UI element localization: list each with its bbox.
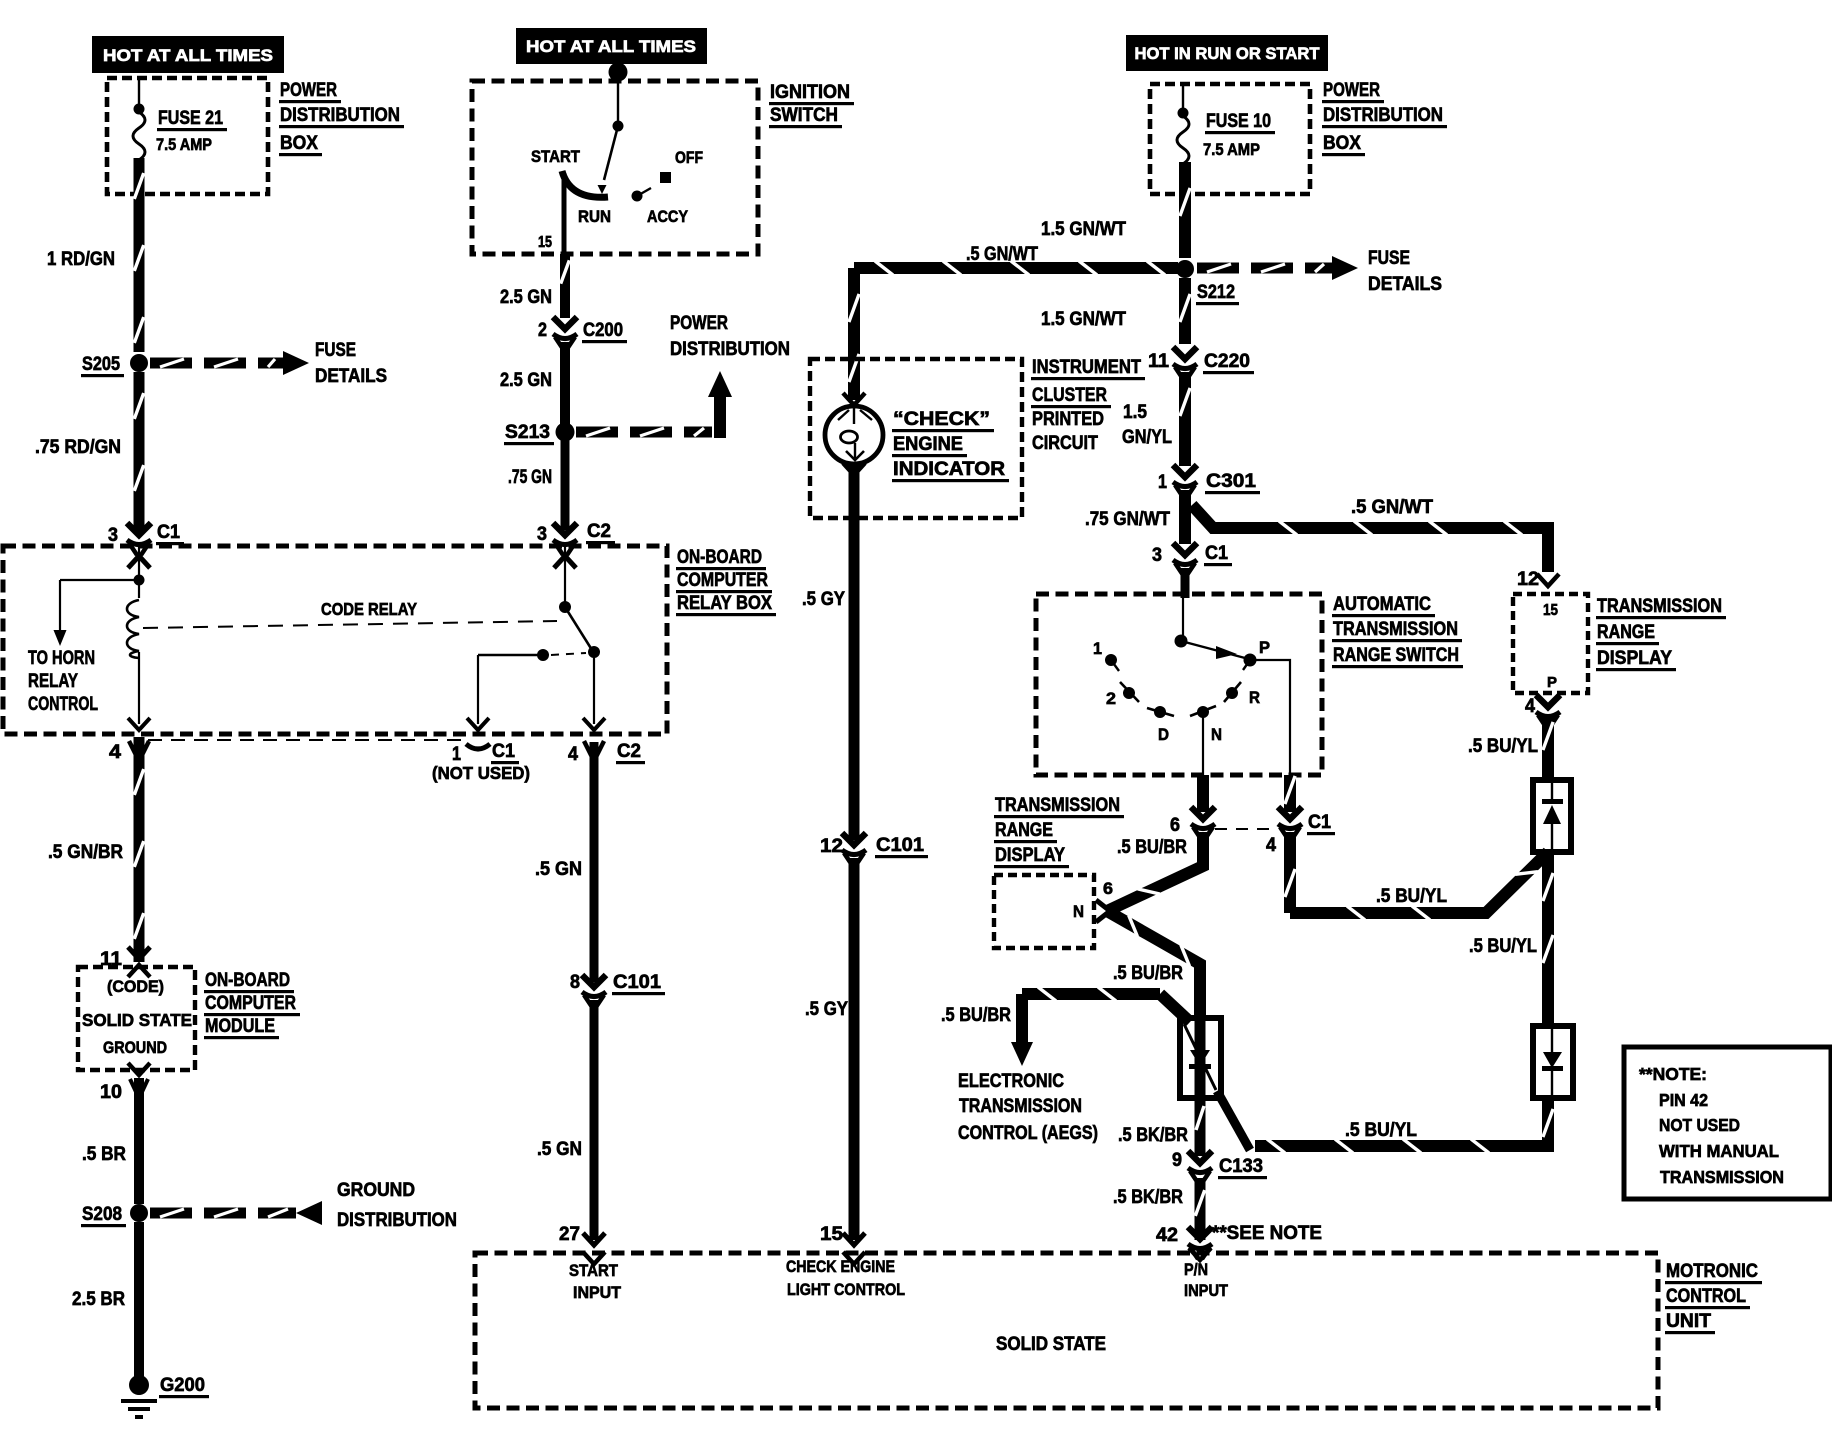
node [588,646,600,658]
svg-text:CLUSTER: CLUSTER [1032,385,1107,406]
connector C1 pin 3 [108,522,184,555]
transmission range display box [994,875,1094,948]
svg-text:S212: S212 [1197,282,1235,303]
wire 2.5 GN [560,342,570,424]
fuse F21 7.5A [133,107,227,160]
svg-text:2.5 BR: 2.5 BR [72,1289,125,1310]
label .5 GN/WT [1351,497,1433,518]
svg-text:C220: C220 [1204,351,1250,372]
relay coil K1 [127,600,139,658]
svg-text:G200: G200 [160,1375,205,1396]
wire [1250,660,1290,775]
fuse details arrow [150,351,309,375]
check engine lamp [825,406,883,464]
svg-text:4: 4 [109,742,121,763]
svg-text:SWITCH: SWITCH [770,105,838,126]
svg-text:**SEE NOTE: **SEE NOTE [1212,1223,1322,1244]
svg-text:.75 GN: .75 GN [508,467,552,488]
svg-text:N: N [1211,725,1222,744]
label .5 BK/BR [1113,1187,1183,1208]
wire .5 GY [849,462,860,840]
label code solid state ground [82,978,192,1057]
wire thin diagonal through diode D1 [1184,1024,1216,1090]
splice S208 [81,1204,148,1227]
svg-text:SOLID STATE: SOLID STATE [996,1334,1106,1355]
svg-text:.5 BU/YL: .5 BU/YL [1469,936,1537,957]
svg-text:CIRCUIT: CIRCUIT [1032,433,1098,454]
fuse details arrow [1197,256,1358,280]
svg-text:.5 GY: .5 GY [805,999,848,1020]
AEGS arrow [1011,994,1033,1066]
svg-text:15: 15 [1543,602,1558,619]
svg-text:BOX: BOX [280,133,318,154]
label .5 BU/BR [941,1005,1011,1026]
wire .5 GN/WT horizontal [854,261,1178,275]
label .5 GN [535,859,582,880]
relay actuation dashed link [143,621,557,628]
svg-text:CONTROL (AEGS): CONTROL (AEGS) [958,1123,1098,1144]
svg-text:INDICATOR: INDICATOR [893,459,1005,480]
wire [1197,775,1209,812]
label 2.5 GN [500,287,552,308]
on-board computer module box [78,967,195,1070]
label relay box [676,547,776,616]
svg-text:POWER: POWER [1323,80,1380,101]
svg-text:(CODE): (CODE) [107,978,164,996]
node [1178,108,1189,119]
wire .75 RD/GN [134,372,143,532]
svg-text:START: START [531,147,581,166]
svg-text:S213: S213 [505,422,550,443]
power distribution arrow [576,371,732,438]
label .5 GN/BR [48,842,123,863]
pin 4 [1525,695,1560,727]
svg-text:“CHECK”: “CHECK” [893,409,990,430]
ignition switch box [472,81,758,254]
svg-text:8: 8 [570,972,580,993]
power distribution box label (hot in run or start) [1126,35,1328,71]
label start [531,147,581,166]
wire [583,652,605,730]
ignition blade [598,126,619,194]
label ignition switch [769,82,854,128]
svg-text:15: 15 [538,234,552,251]
svg-text:C1: C1 [492,741,515,762]
wire to display N [1096,832,1203,922]
ignition contact arc [562,171,608,197]
transmission range display box right [1513,594,1588,693]
wire flare [584,741,604,757]
svg-text:C200: C200 [583,320,623,341]
label on-board computer module [204,970,300,1039]
svg-text:1: 1 [1158,472,1167,493]
svg-text:.5 GN: .5 GN [537,1139,582,1160]
wire [467,655,489,730]
svg-text:15: 15 [820,1224,843,1245]
svg-text:6: 6 [1170,815,1180,836]
relay switch blade [565,607,592,650]
connector C133 pin 9 [1172,1150,1267,1183]
svg-text:C2: C2 [617,741,641,762]
svg-text:3: 3 [537,524,547,545]
label check engine indicator [892,409,1009,482]
svg-text:DETAILS: DETAILS [1368,274,1442,295]
ground G200 [121,1375,209,1417]
svg-text:.5 BK/BR: .5 BK/BR [1113,1187,1183,1208]
label solid state [996,1334,1106,1355]
svg-text:1 RD/GN: 1 RD/GN [47,249,115,270]
contact R [1224,682,1260,707]
lamp arrow [843,393,865,405]
svg-text:TO HORN: TO HORN [28,648,95,669]
pin 4 C2 label [568,741,645,765]
pin 11 [100,947,150,977]
svg-text:TRANSMISSION: TRANSMISSION [959,1096,1082,1117]
svg-text:.5 BU/YL: .5 BU/YL [1468,736,1538,757]
lamp arrow [843,463,865,475]
contact N [1190,706,1222,744]
label power distribution box [279,80,404,156]
svg-text:INSTRUMENT: INSTRUMENT [1032,357,1141,378]
diode D2 [1533,780,1571,852]
label 1 RD/GN [47,249,115,270]
fuse F10 7.5A [1177,110,1275,164]
svg-text:2: 2 [538,320,547,341]
node [559,601,571,613]
label .5 BR [82,1144,126,1165]
label instrument cluster printed circuit [1031,357,1145,454]
wire [478,649,586,661]
pin arrow 27 [583,1252,605,1264]
label .5 BU/BR [1113,963,1183,984]
svg-text:2: 2 [1106,689,1116,708]
label .75 GN [508,467,552,488]
svg-text:FUSE 10: FUSE 10 [1206,110,1271,132]
svg-text:DISTRIBUTION: DISTRIBUTION [337,1210,457,1231]
connector C1 pin 4 [1266,807,1335,856]
wire [562,173,567,254]
label 1.5 GN/YL [1122,402,1172,448]
svg-text:P: P [1259,638,1270,657]
svg-text:.5 BU/YL: .5 BU/YL [1345,1120,1417,1141]
svg-text:C1: C1 [1205,543,1228,564]
svg-text:.75 GN/WT: .75 GN/WT [1085,509,1170,530]
svg-text:7.5 AMP: 7.5 AMP [1203,140,1260,159]
svg-text:RELAY: RELAY [28,671,78,692]
label 2.5 GN [500,370,552,391]
contact 2 [1106,682,1139,708]
svg-text:P/N: P/N [1184,1260,1208,1279]
svg-text:CONTROL: CONTROL [1666,1286,1746,1307]
label ground distribution [337,1180,457,1231]
svg-text:12: 12 [820,836,843,857]
svg-text:GN/YL: GN/YL [1122,427,1172,448]
svg-text:ENGINE: ENGINE [893,434,963,455]
node [609,63,628,82]
wire .5 BR [134,1078,144,1204]
wire [1181,568,1190,598]
automatic transmission range switch box [1036,594,1322,775]
wire [1285,775,1295,812]
svg-text:1: 1 [1093,639,1102,658]
svg-text:HOT IN RUN OR START: HOT IN RUN OR START [1135,45,1320,63]
contact D [1147,706,1174,744]
svg-text:CODE RELAY: CODE RELAY [321,599,417,619]
pin arrow 42 [1189,1248,1211,1260]
svg-text:TRANSMISSION: TRANSMISSION [1333,619,1458,640]
svg-text:(NOT USED): (NOT USED) [432,763,530,783]
svg-text:1: 1 [452,744,461,765]
svg-text:DISTRIBUTION: DISTRIBUTION [1323,105,1443,126]
label .5 GN [537,1139,582,1160]
svg-text:1.5 GN/WT: 1.5 GN/WT [1041,309,1126,330]
wire [1202,713,1204,775]
splice S205 [81,354,148,377]
svg-text:ACCY: ACCY [647,207,689,226]
svg-text:.5 GN: .5 GN [535,859,582,880]
svg-text:INPUT: INPUT [573,1283,622,1302]
svg-text:.5 GN/WT: .5 GN/WT [966,244,1038,265]
wire .5 GN/WT branch [1192,505,1548,572]
wire diagonal out of diode D1 [1217,1091,1250,1150]
connector C101 pin 12 [820,833,928,865]
label .5 GY [802,589,845,610]
svg-text:1.5 GN/WT: 1.5 GN/WT [1041,219,1126,240]
note box [1624,1047,1831,1199]
svg-text:12: 12 [1517,569,1539,590]
svg-text:N: N [1073,902,1084,921]
label .5 BU/YL [1468,736,1538,757]
label 1.5 GN/WT [1041,219,1126,240]
svg-text:PIN 42: PIN 42 [1659,1090,1708,1110]
range switch blade [1181,641,1245,659]
svg-text:LIGHT CONTROL: LIGHT CONTROL [787,1280,905,1299]
wire .5 GN [590,742,599,982]
diode D1 [1180,1018,1221,1098]
svg-text:9: 9 [1172,1150,1182,1171]
off contact [660,172,671,183]
connector C220 pin 11 [1148,347,1254,379]
power distribution box (fuse 21) [107,78,268,194]
label .5 BU/YL [1345,1120,1417,1141]
label check engine light control [786,1257,905,1299]
svg-text:.5 GN/BR: .5 GN/BR [48,842,123,863]
connector C200 pin 2 [538,317,627,349]
svg-text:D: D [1158,725,1169,744]
wire .5 BU/YL [1543,852,1553,1026]
node [613,121,624,132]
wire [554,546,576,607]
wire flare [130,1079,148,1094]
wire .5 GN [590,1000,599,1240]
wire [1182,598,1184,641]
splice S212 [1176,260,1239,305]
ground distribution arrow [150,1201,322,1225]
wire [138,546,140,598]
svg-text:S205: S205 [82,354,120,375]
wire 1.5 GN/WT [1180,162,1190,258]
svg-text:TRANSMISSION: TRANSMISSION [1660,1167,1784,1187]
svg-text:CONTROL: CONTROL [28,694,98,715]
svg-text:IGNITION: IGNITION [770,82,850,103]
label run [578,207,611,226]
svg-text:POWER: POWER [670,313,728,334]
node [134,104,145,115]
wire .5 BU/YL [1543,716,1553,780]
svg-text:BOX: BOX [1323,133,1361,154]
node [1175,635,1188,648]
svg-text:COMPUTER: COMPUTER [205,993,296,1014]
svg-text:RUN: RUN [578,207,611,226]
svg-text:RANGE SWITCH: RANGE SWITCH [1333,645,1459,666]
label electronic transmission control [958,1071,1098,1144]
pin 3 arrow [128,556,150,568]
svg-text:DISPLAY: DISPLAY [995,845,1065,866]
svg-text:WITH MANUAL: WITH MANUAL [1659,1141,1779,1161]
svg-text:C1: C1 [157,522,180,543]
connector C2 pin 3 [537,521,615,555]
wire 1.5 GN/YL [1180,372,1190,466]
svg-text:42: 42 [1156,1225,1178,1246]
svg-text:.5 GY: .5 GY [802,589,845,610]
svg-text:.5 BK/BR: .5 BK/BR [1118,1125,1188,1146]
label power distribution box [1322,80,1447,156]
svg-text:DISTRIBUTION: DISTRIBUTION [280,105,400,126]
svg-text:MOTRONIC: MOTRONIC [1666,1261,1758,1282]
node [134,575,145,586]
connector C1 pin 1 (not used) [432,741,530,783]
power distribution box label (hot at all times) [92,36,284,73]
svg-text:1.5: 1.5 [1123,402,1147,423]
svg-text:UNIT: UNIT [1666,1311,1711,1332]
wire flare [129,741,149,757]
label transmission range display [1596,596,1726,671]
label automatic transmission range switch [1332,594,1463,668]
svg-text:11: 11 [1148,351,1169,372]
label to horn relay control [28,648,98,715]
svg-text:CHECK ENGINE: CHECK ENGINE [786,1257,895,1276]
wire 1 RD/GN [134,158,143,352]
label 2.5 BR [72,1289,125,1310]
svg-text:RANGE: RANGE [1597,622,1655,643]
svg-text:6: 6 [1103,879,1113,898]
contact 1 [1093,639,1119,671]
svg-text:COMPUTER: COMPUTER [677,570,768,591]
wire .75 GN/WT [1179,490,1191,544]
label .5 GY [805,999,848,1020]
connector C1 pin 3 [1152,543,1232,575]
check engine indicator box [810,359,1022,518]
wire .5 BK/BR [1195,1178,1204,1240]
connector C301 pin 1 [1158,465,1260,497]
svg-text:HOT AT ALL TIMES: HOT AT ALL TIMES [103,47,273,65]
svg-text:10: 10 [100,1082,122,1103]
diode D3 [1533,1026,1573,1098]
svg-text:FUSE: FUSE [315,340,356,361]
label .5 BK/BR [1118,1125,1188,1146]
pin 12 [1517,569,1559,590]
svg-text:.5 BU/BR: .5 BU/BR [941,1005,1011,1026]
svg-text:C101: C101 [613,972,661,993]
pin 4 label [109,742,121,763]
svg-text:GROUND: GROUND [103,1039,167,1057]
svg-text:.5 BR: .5 BR [82,1144,126,1165]
svg-text:4: 4 [1525,696,1535,717]
label .5 BU/YL [1469,936,1537,957]
wire .5 GY [849,858,860,1240]
svg-text:AUTOMATIC: AUTOMATIC [1333,594,1431,615]
label start input [569,1261,622,1302]
svg-text:DETAILS: DETAILS [315,366,387,387]
connector C1 dashed boundary [148,739,468,741]
svg-text:ON-BOARD: ON-BOARD [205,970,290,991]
svg-text:**NOTE:: **NOTE: [1639,1064,1707,1084]
wire .5 BU/BR to AEGS [1022,987,1160,1001]
pin 15 [820,1224,865,1245]
svg-text:.75 RD/GN: .75 RD/GN [35,437,121,458]
svg-text:NOT USED: NOT USED [1659,1115,1740,1135]
svg-text:DISTRIBUTION: DISTRIBUTION [670,339,790,360]
svg-text:RELAY BOX: RELAY BOX [677,593,772,614]
svg-text:SOLID STATE: SOLID STATE [82,1010,192,1030]
accy contact [632,188,652,202]
svg-text:FUSE 21: FUSE 21 [158,107,223,129]
pin arrow 15 [843,1252,865,1264]
wire to horn relay [54,580,140,646]
svg-text:R: R [1249,688,1260,707]
label fuse details [315,340,387,387]
svg-text:P: P [1547,674,1557,691]
label p/n input [1184,1260,1229,1300]
label .5 BU/YL [1376,886,1447,907]
label transmission range display [994,795,1124,868]
label motronic control unit [1665,1261,1762,1334]
svg-text:RANGE: RANGE [995,820,1053,841]
contact P [1243,638,1270,670]
wire [128,652,150,730]
connector C101 pin 8 [570,972,665,1007]
label .5 BU/BR [1117,837,1187,858]
wire 2.5 BR [134,1222,144,1378]
svg-text:DISPLAY: DISPLAY [1597,648,1672,669]
svg-text:3: 3 [108,525,118,546]
svg-text:7.5 AMP: 7.5 AMP [156,135,212,154]
svg-text:START: START [569,1261,619,1280]
connector pin 6 [1170,807,1215,839]
motronic control unit box [475,1253,1658,1408]
label pin 15 [538,234,552,251]
svg-text:.5 BU/YL: .5 BU/YL [1376,886,1447,907]
svg-text:S208: S208 [82,1204,122,1225]
svg-text:HOT AT ALL TIMES: HOT AT ALL TIMES [526,38,696,56]
wire [138,78,140,106]
svg-text:.5 BU/BR: .5 BU/BR [1117,837,1187,858]
svg-text:C133: C133 [1219,1156,1263,1177]
svg-text:ON-BOARD: ON-BOARD [677,547,762,568]
pin 27 [559,1224,605,1245]
svg-text:4: 4 [568,744,578,765]
label code relay [321,599,417,619]
on-board computer relay box [3,546,667,734]
svg-text:C2: C2 [587,521,611,542]
label 1.5 GN/WT [1041,309,1126,330]
wire [1182,84,1184,110]
svg-text:2.5 GN: 2.5 GN [500,287,552,308]
splice S213 [504,422,575,445]
svg-text:TRANSMISSION: TRANSMISSION [995,795,1120,816]
svg-text:PRINTED: PRINTED [1032,409,1104,430]
wire .5 BU/YL loop [1285,832,1548,920]
